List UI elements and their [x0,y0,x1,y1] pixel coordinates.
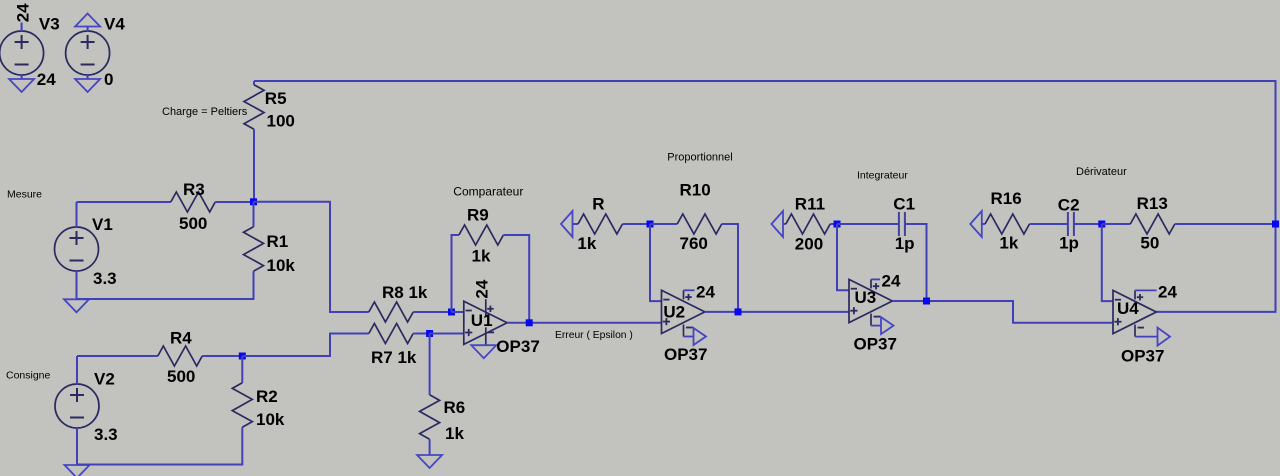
junction R11/C1/U3- node [834,221,841,228]
wire node down to U2 inverting input [650,224,662,301]
svg-text:V4: V4 [104,15,125,34]
svg-text:760: 760 [680,234,708,253]
svg-text:R9: R9 [467,206,489,225]
resistor R9 [459,206,504,266]
ground at R6 [417,455,442,468]
wire C1 to U3 output node [905,224,927,301]
wire Consigne node to R7 [242,334,368,357]
svg-text:OP37: OP37 [1121,347,1164,366]
junction R/R10/U2- node [647,221,654,228]
wire R1 top lead [253,202,255,227]
svg-text:R5: R5 [265,89,287,108]
svg-text:1p: 1p [1059,234,1079,253]
voltage source V2 [55,370,118,445]
svg-text:R11: R11 [795,195,825,214]
V1 plus terminal mark [70,237,84,239]
voltage source V1 [55,215,117,288]
svg-text:Charge = Peltiers: Charge = Peltiers [162,106,248,118]
resistor R3 [171,180,215,233]
svg-text:R1: R1 [267,232,289,251]
svg-text:C1: C1 [893,195,915,214]
svg-text:500: 500 [179,214,207,233]
voltage source V3 [0,15,60,90]
svg-text:R10: R10 [680,181,711,200]
net label 24 (V+ rail) wire stub at U2 [684,289,695,291]
ground flag at U2 V- pin [694,328,707,345]
resistor R6 [420,395,466,443]
U4 non-inverting input mark [1114,321,1121,323]
wire R7 to U1 node [413,333,429,335]
svg-text:24: 24 [882,272,901,291]
svg-text:24: 24 [696,283,715,302]
wire top feedback loop (R5 top to U4 output) [254,81,1276,312]
junction R7/R6/U1+ node [426,330,433,337]
svg-text:1k: 1k [999,234,1018,253]
resistor R4 [158,329,202,387]
wire V4 top lead [87,27,89,32]
wire V2 to R4 [77,355,158,357]
wire V3 top lead [21,23,23,32]
svg-text:Erreur ( Epsilon ): Erreur ( Epsilon ) [555,330,633,341]
capacitor C1 [893,195,915,254]
resistor R7 [369,324,417,368]
svg-text:Consigne: Consigne [6,370,51,382]
wire R8 to U1 inverting input [413,311,451,313]
ground flag at resistor R left end [561,211,573,237]
wire V2 bottom lead [76,428,78,465]
svg-text:10k: 10k [256,410,285,429]
op-amp U3 (OP37) [849,279,892,325]
svg-text:1k: 1k [445,424,464,443]
wire U1 output to U2 non-inverting input (Erreur) [507,322,661,324]
wire stub U4 V- to ground flag [1135,336,1158,338]
wire U1- node up to R9 [452,235,459,312]
ground at V2 [65,465,90,476]
junction R9/U1 output node [526,319,533,326]
wire R5 top lead [253,81,255,85]
U3 non-inverting input mark [850,310,857,312]
svg-text:10k: 10k [267,256,296,275]
svg-text:3.3: 3.3 [94,425,118,444]
wire Mesure node to R8 [254,202,369,312]
wire node to R13 [1102,223,1131,225]
resistor R11 [786,195,830,254]
wire V1 top lead [76,202,78,228]
V4 plus terminal mark [81,41,95,43]
svg-text:U4: U4 [1117,299,1139,318]
svg-text:Integrateur: Integrateur [857,170,908,182]
wire stub U2 V- to ground flag [684,336,694,338]
svg-text:Mesure: Mesure [7,189,42,201]
svg-text:Proportionnel: Proportionnel [667,151,732,163]
ground flag at U4 V- pin [1158,328,1171,346]
wire R16 to C2 [1030,223,1068,225]
svg-text:R13: R13 [1137,194,1168,213]
wire R2 bottom to V2 ground [77,427,242,464]
op-amp U4 (OP37) [1113,290,1156,336]
svg-text:U3: U3 [855,288,877,307]
U2 inverting input mark [663,299,669,301]
ground at V3 [9,79,34,92]
wire R to node [623,223,651,225]
svg-text:1k: 1k [577,234,596,253]
junction U3 output/C1 node [923,298,930,305]
svg-text:R8 1k: R8 1k [382,283,428,302]
U3 inverting input mark [851,288,857,290]
svg-text:R6: R6 [444,398,466,417]
junction Consigne node (R4/R2/R7) [239,353,246,360]
svg-text:100: 100 [267,112,295,131]
resistor R5 [244,85,295,131]
V2 plus terminal mark [70,394,84,396]
svg-text:OP37: OP37 [664,345,707,364]
svg-text:C2: C2 [1058,196,1080,215]
wire flag to R11 [783,223,786,225]
wire node down to U4 inverting input [1102,224,1113,301]
svg-text:24: 24 [473,279,492,298]
resistor R13 [1130,194,1175,253]
op-amp U2 (OP37) [662,290,705,336]
wire R1 bottom to V1 ground [77,271,254,299]
op-amp U1 (OP37) [464,299,507,345]
wire V4 bottom lead [87,75,89,80]
svg-text:R: R [592,195,604,214]
svg-text:1p: 1p [895,234,915,253]
junction C2/R13/U4- node [1098,221,1105,228]
junction R13/top loop node [1272,221,1279,228]
capacitor C2 [1058,196,1080,253]
svg-text:Dérivateur: Dérivateur [1076,166,1127,178]
V3 minus terminal mark [15,64,29,66]
wire R6 top lead [429,334,431,395]
junction R8/R9/U1- node [448,309,455,316]
V3 plus terminal mark [15,41,29,43]
svg-text:R3: R3 [183,180,205,199]
svg-text:1k: 1k [472,247,491,266]
resistor R2 [232,383,285,429]
svg-text:V2: V2 [94,370,115,389]
svg-text:V1: V1 [92,215,113,234]
V4 minus terminal mark [81,64,95,66]
wire node to R10 [650,223,677,225]
wire U3 output to U4 non-inverting input [892,301,1113,323]
wire node to U1 inverting input [452,311,464,313]
svg-text:500: 500 [167,367,195,386]
U4 inverting input mark [1115,299,1121,301]
wire R9 to U1 output node [503,235,529,323]
wire R13 to right edge [1175,223,1276,225]
U1 inverting input mark [466,310,472,312]
U1 non-inverting input mark [465,332,472,334]
wire stub U3 V- to ground flag [871,325,881,327]
ground flag at R16 left end [970,211,982,237]
wire flag to R [573,223,579,225]
wire V1 to R3 [77,201,171,203]
svg-text:R16: R16 [991,189,1022,208]
svg-text:R4: R4 [170,329,192,348]
svg-text:U2: U2 [663,303,685,322]
net label 24 (V+ rail) wire stub at U3 [871,278,880,280]
svg-text:24: 24 [14,3,33,22]
voltage source V4 [66,15,126,90]
svg-text:50: 50 [1140,234,1159,253]
wire node to U1 non-inverting input [430,333,464,335]
V1 minus terminal mark [70,260,84,262]
ground at V4 [75,79,100,92]
resistor R10 [677,181,722,254]
svg-text:3.3: 3.3 [93,269,117,288]
wire node down to U3 inverting input [837,224,849,290]
svg-text:24: 24 [37,70,56,89]
ground flag at R11 left end [772,211,784,237]
junction Mesure node (R3/R5/R1) [250,198,257,205]
ground flag at U3 V- pin [881,317,894,334]
resistor R8 [369,283,428,322]
wire U2 output to U3 non-inverting input [705,311,849,313]
net label 24 (V+ rail) wire stub at U4 [1135,289,1157,291]
wire node to C1 [837,223,899,225]
ground at V1 [64,299,89,312]
wire R5 bottom lead [253,129,255,202]
wire R6 bottom lead [429,439,431,455]
svg-text:V3: V3 [39,15,60,34]
svg-text:U1: U1 [471,311,493,330]
svg-text:OP37: OP37 [854,335,897,354]
svg-text:R2: R2 [256,387,278,406]
wire R3 to Mesure node [215,201,253,203]
svg-text:OP37: OP37 [496,337,539,356]
svg-text:0: 0 [104,70,113,89]
wire V1 bottom lead [76,271,78,300]
svg-text:200: 200 [795,235,823,254]
wire R11 to node [830,223,837,225]
wire flag to R16 [982,223,985,225]
wire C2 to node [1074,223,1102,225]
wire V3 bottom lead [21,75,23,80]
wire R10 to U2 output node [722,224,738,312]
ground flag at V4 top [75,14,100,27]
ground at U1 V- pin [471,345,496,358]
wire V2 top lead [76,356,78,385]
resistor R16 [985,189,1030,253]
wire R2 top lead [241,356,243,383]
V2 minus terminal mark [70,417,84,419]
U2 non-inverting input mark [663,321,670,323]
resistor R1 [244,227,296,275]
svg-text:Comparateur: Comparateur [453,184,523,198]
wire R4 to Consigne node [202,355,242,357]
svg-text:24: 24 [1158,283,1177,302]
resistor R [577,195,622,253]
junction U2 output/R10 node [735,308,742,315]
svg-text:R7 1k: R7 1k [371,348,417,367]
